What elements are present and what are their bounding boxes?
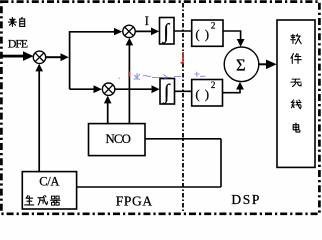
svg-text:Σ: Σ (236, 56, 246, 75)
wire: squarer Q up into sigma (223, 82, 244, 93)
red watermark mark on NCO-M2 wire (128, 72, 130, 77)
wire: integrator I to squarer (174, 30, 192, 32)
NCO box (89, 124, 146, 156)
svg-text:DFE: DFE (8, 36, 28, 50)
multiplier M1 (code mixer) (33, 51, 45, 63)
wire: feedback vertical in DSP (220, 139, 222, 187)
wire: thick input arrow from DFE (3, 51, 34, 61)
wire: M3 to integrator Q (115, 85, 160, 93)
red watermark mark on divider (181, 52, 184, 64)
wire: C/A up to M1 (35, 64, 43, 172)
wire: sigma output to software radio box (259, 60, 277, 70)
label 软件无线电 (software radio) vertical (291, 34, 302, 132)
multiplier M3 (Q mixer) (102, 83, 114, 95)
wire: NCO right feedback horizontal (145, 138, 221, 140)
svg-text:I: I (145, 13, 149, 28)
FPGA/DSP divider dash-dot line (182, 3, 184, 213)
multiplier M2 (I mixer) (123, 25, 135, 37)
svg-text:FPGA: FPGA (116, 193, 153, 208)
svg-text:C/A: C/A (39, 175, 59, 189)
wire: M2 to integrator (135, 28, 159, 36)
summer SIGMA (224, 47, 259, 82)
label 来自 (from) (8, 17, 24, 26)
wire: M1 output arrow to junction (46, 53, 69, 61)
wire: feedback horizontal to C/A generator (77, 186, 221, 188)
svg-text:2: 2 (211, 80, 216, 90)
blue watermark squiggles (118, 72, 205, 80)
C/A generator box (22, 172, 76, 209)
wire: upper branch to M2 (69, 28, 123, 35)
svg-text:(: ( (195, 86, 199, 101)
wire: squarer I down into sigma (223, 31, 245, 47)
svg-text:∫: ∫ (161, 19, 170, 44)
squarer box ( )^2 I (192, 20, 223, 46)
svg-text:): ) (205, 86, 209, 101)
svg-text:(: ( (195, 27, 199, 42)
wire: lower branch to M3 (70, 85, 102, 93)
svg-text:NCO: NCO (106, 132, 131, 146)
squarer box ( )^2 Q (192, 80, 223, 107)
svg-text:∫: ∫ (162, 79, 171, 104)
svg-text:2: 2 (211, 20, 216, 30)
integrator box Q (160, 79, 175, 105)
svg-text:): ) (205, 27, 209, 42)
wire: integrator Q to squarer Q (175, 90, 192, 92)
svg-text:DSP: DSP (231, 192, 259, 207)
label 生成器 (generator) (25, 195, 61, 205)
wire: NCO up to M2 (crosses Q wire) (126, 38, 134, 124)
software radio box (277, 20, 315, 167)
wire: NCO up to M3 (104, 96, 112, 124)
integrator box I with pin (160, 18, 175, 45)
wire: junction vertical split (69, 32, 71, 89)
